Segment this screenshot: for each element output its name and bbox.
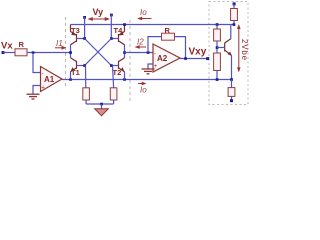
svg-text:T1: T1 (71, 68, 80, 77)
node T2 emitter on rail (123, 78, 126, 81)
arrow I2 pointing left (139, 46, 146, 48)
terminal Vy left (83, 16, 86, 19)
resistor R2b (214, 53, 221, 71)
node T1 base (83, 64, 86, 67)
terminal Vx (2, 51, 5, 54)
ground A2 (142, 69, 155, 74)
terminal bottom bias (230, 99, 233, 102)
wire T1 base down to RE1 (85, 66, 87, 88)
svg-text:R: R (19, 40, 25, 49)
collector rail top (71, 24, 235, 26)
ground arrow core (95, 109, 109, 116)
wire R2b to bottom rail (216, 71, 218, 80)
resistor R input (15, 49, 27, 56)
wire I2 to A2 (125, 52, 154, 54)
svg-text:2Vbe: 2Vbe (240, 39, 249, 61)
wire T3 base stub (77, 38, 85, 40)
op-amp A1 (41, 67, 63, 92)
node bottom rail R2b (216, 78, 219, 81)
wire Vx to R (3, 52, 15, 54)
dashed box bias network (209, 2, 248, 105)
arrow I1 (55, 47, 63, 49)
arrow Io bottom pointing right (138, 83, 143, 85)
op-amp A2 (153, 44, 180, 72)
svg-text:A1: A1 (44, 75, 55, 84)
wire A2 noninverting to ground (148, 64, 153, 69)
arrow Vy double (93, 18, 106, 20)
wire to R3 (231, 80, 233, 88)
node T1 emitter on rail (69, 78, 72, 81)
svg-text:A2: A2 (157, 54, 168, 63)
wire T5 emitter down to rail (231, 56, 233, 80)
svg-text:Vy: Vy (93, 7, 104, 17)
node feedback tap (147, 51, 150, 54)
svg-text:T3: T3 (71, 26, 80, 35)
resistor RE1 (83, 88, 90, 100)
node I2 junction (123, 51, 126, 54)
node T3 base (83, 37, 86, 40)
wire feedback up and right (148, 37, 163, 53)
transistor T4 (119, 25, 125, 45)
svg-text:I2: I2 (137, 38, 144, 47)
wire A1 noninverting to ground (33, 86, 41, 94)
wire T3 collector down to I1 node (70, 45, 72, 58)
wire down to ground arrow (101, 104, 103, 109)
svg-text:T2: T2 (113, 68, 122, 77)
transistor T2 (119, 58, 125, 72)
wire rail to R2a (216, 25, 218, 30)
wire R3 to terminal (231, 96, 233, 100)
node T5 base (216, 46, 219, 49)
wire RE1 bottom (85, 100, 87, 104)
wire T1 base stub (77, 65, 85, 67)
resistor R feedback (162, 33, 175, 40)
svg-text:-: - (154, 52, 156, 58)
wire down to A1 inverting input (33, 53, 41, 73)
wire Vy left down to T3 base node (84, 17, 86, 39)
transistor T3 (71, 25, 77, 45)
wire supply to R1 (233, 4, 235, 9)
resistor RE2 (110, 88, 117, 100)
node I1 junction (69, 51, 72, 54)
wire cross coupling T3 base to T2 base (85, 39, 112, 66)
wire cross coupling T4 base to T1 base (85, 39, 112, 66)
svg-text:Io: Io (140, 86, 147, 95)
wire A1 output / emitter rail (62, 79, 232, 81)
terminal supply top (233, 2, 236, 5)
wire T1 emitter to rail (70, 72, 72, 80)
wire R to node (27, 52, 71, 54)
svg-text:T4: T4 (114, 26, 124, 35)
wire feedback right to output (175, 37, 186, 59)
wire joining emitter resistors (86, 103, 114, 105)
node T4 collector on rail (123, 23, 126, 26)
node rail to R2a (216, 23, 219, 26)
terminal Vy right (110, 14, 113, 17)
resistor R2a (214, 29, 221, 41)
wire R2a to base node (216, 41, 218, 53)
svg-text:Vxy: Vxy (189, 47, 207, 58)
resistor R3 (228, 88, 235, 97)
wire T4 base stub (111, 38, 118, 40)
wire A2 output (180, 58, 208, 60)
node center bottom (100, 103, 103, 106)
transistor T1 (71, 58, 77, 72)
resistor R1 bias (231, 9, 238, 21)
node output feedback (184, 57, 187, 60)
wire RE2 bottom (113, 100, 115, 104)
wire T2 base down to RE2 (113, 66, 114, 88)
arrow Io top pointing left (142, 18, 152, 20)
node T4 base (110, 37, 113, 40)
transistor T5 (225, 39, 232, 56)
svg-text:+: + (41, 86, 45, 92)
wire T5 collector (230, 25, 232, 39)
dashed box core left edge (65, 17, 67, 88)
terminal Vxy (206, 57, 209, 60)
svg-text:Vx: Vx (1, 41, 13, 52)
node bottom rail end (230, 78, 233, 81)
wire R1 to rail node (233, 21, 235, 25)
arrow 2Vbe (238, 28, 240, 70)
node rail end (233, 23, 236, 26)
wire T2 base stub (111, 65, 118, 67)
node T2 base (110, 64, 113, 67)
wire T5 base stub (217, 47, 225, 49)
ground A1 (27, 94, 40, 99)
wire T4 collector down to I2 node (124, 45, 126, 58)
svg-text:-: - (42, 72, 44, 78)
svg-text:Io: Io (140, 8, 147, 17)
wire Vy right down to T4 base node (110, 15, 112, 39)
wire T2 emitter to rail (124, 72, 126, 80)
dashed box core right edge (129, 20, 131, 101)
node Vx branch (32, 51, 35, 54)
